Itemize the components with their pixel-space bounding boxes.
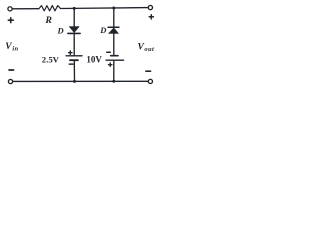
- svg-text:D: D: [99, 25, 106, 35]
- node dot A (top of D1 branch): [73, 7, 76, 10]
- node dot B (top of D2 branch): [112, 6, 115, 9]
- node dot bottom of D1 branch: [73, 80, 76, 83]
- svg-text:R: R: [44, 15, 52, 26]
- wire diode D2 to battery 10V: [113, 33, 115, 55]
- terminal Vout- (bottom-right): [148, 79, 152, 83]
- svg-text:V: V: [5, 42, 12, 52]
- wire node A down to diode D1: [73, 8, 75, 27]
- svg-text:in: in: [12, 46, 18, 53]
- terminal Vin+ (top-left): [8, 7, 12, 11]
- minus sign battery 10V top: [107, 51, 111, 53]
- minus sign at Vin- terminal: [9, 69, 14, 71]
- diode D2 (cathode top, anode bottom): [108, 27, 119, 33]
- svg-text:out: out: [144, 46, 154, 53]
- node dot bottom of D2 branch: [112, 80, 115, 83]
- terminal Vout+ (top-right): [148, 5, 152, 9]
- minus sign battery 2.5V bottom: [69, 63, 73, 65]
- plus sign battery 2.5V top: [69, 51, 72, 54]
- plus sign at Vout+ terminal: [149, 15, 153, 19]
- terminal Vin- (bottom-left): [8, 79, 12, 83]
- svg-text:D: D: [57, 26, 64, 36]
- plus sign battery 10V bottom: [109, 63, 112, 66]
- diode D1 (anode top, cathode bottom): [68, 27, 80, 34]
- svg-text:2.5V: 2.5V: [42, 54, 60, 64]
- wire bottom rail: [13, 80, 148, 82]
- battery 10V (- top): [106, 56, 124, 61]
- wire battery 10V to bottom rail: [113, 60, 115, 81]
- plus sign at Vin+ terminal: [8, 18, 13, 23]
- resistor R: [39, 6, 61, 11]
- wire diode D1 to battery 2.5V: [73, 33, 75, 55]
- minus sign at Vout- terminal: [146, 70, 151, 72]
- svg-text:10V: 10V: [86, 55, 102, 65]
- battery 2.5V (+ top): [66, 56, 82, 60]
- wire top-left from Vin+ terminal to resistor: [12, 8, 39, 10]
- wire battery 2.5V to bottom rail: [73, 60, 75, 81]
- wire top rail from resistor to Vout+ terminal: [61, 7, 149, 10]
- wire node B down to diode D2: [113, 8, 115, 27]
